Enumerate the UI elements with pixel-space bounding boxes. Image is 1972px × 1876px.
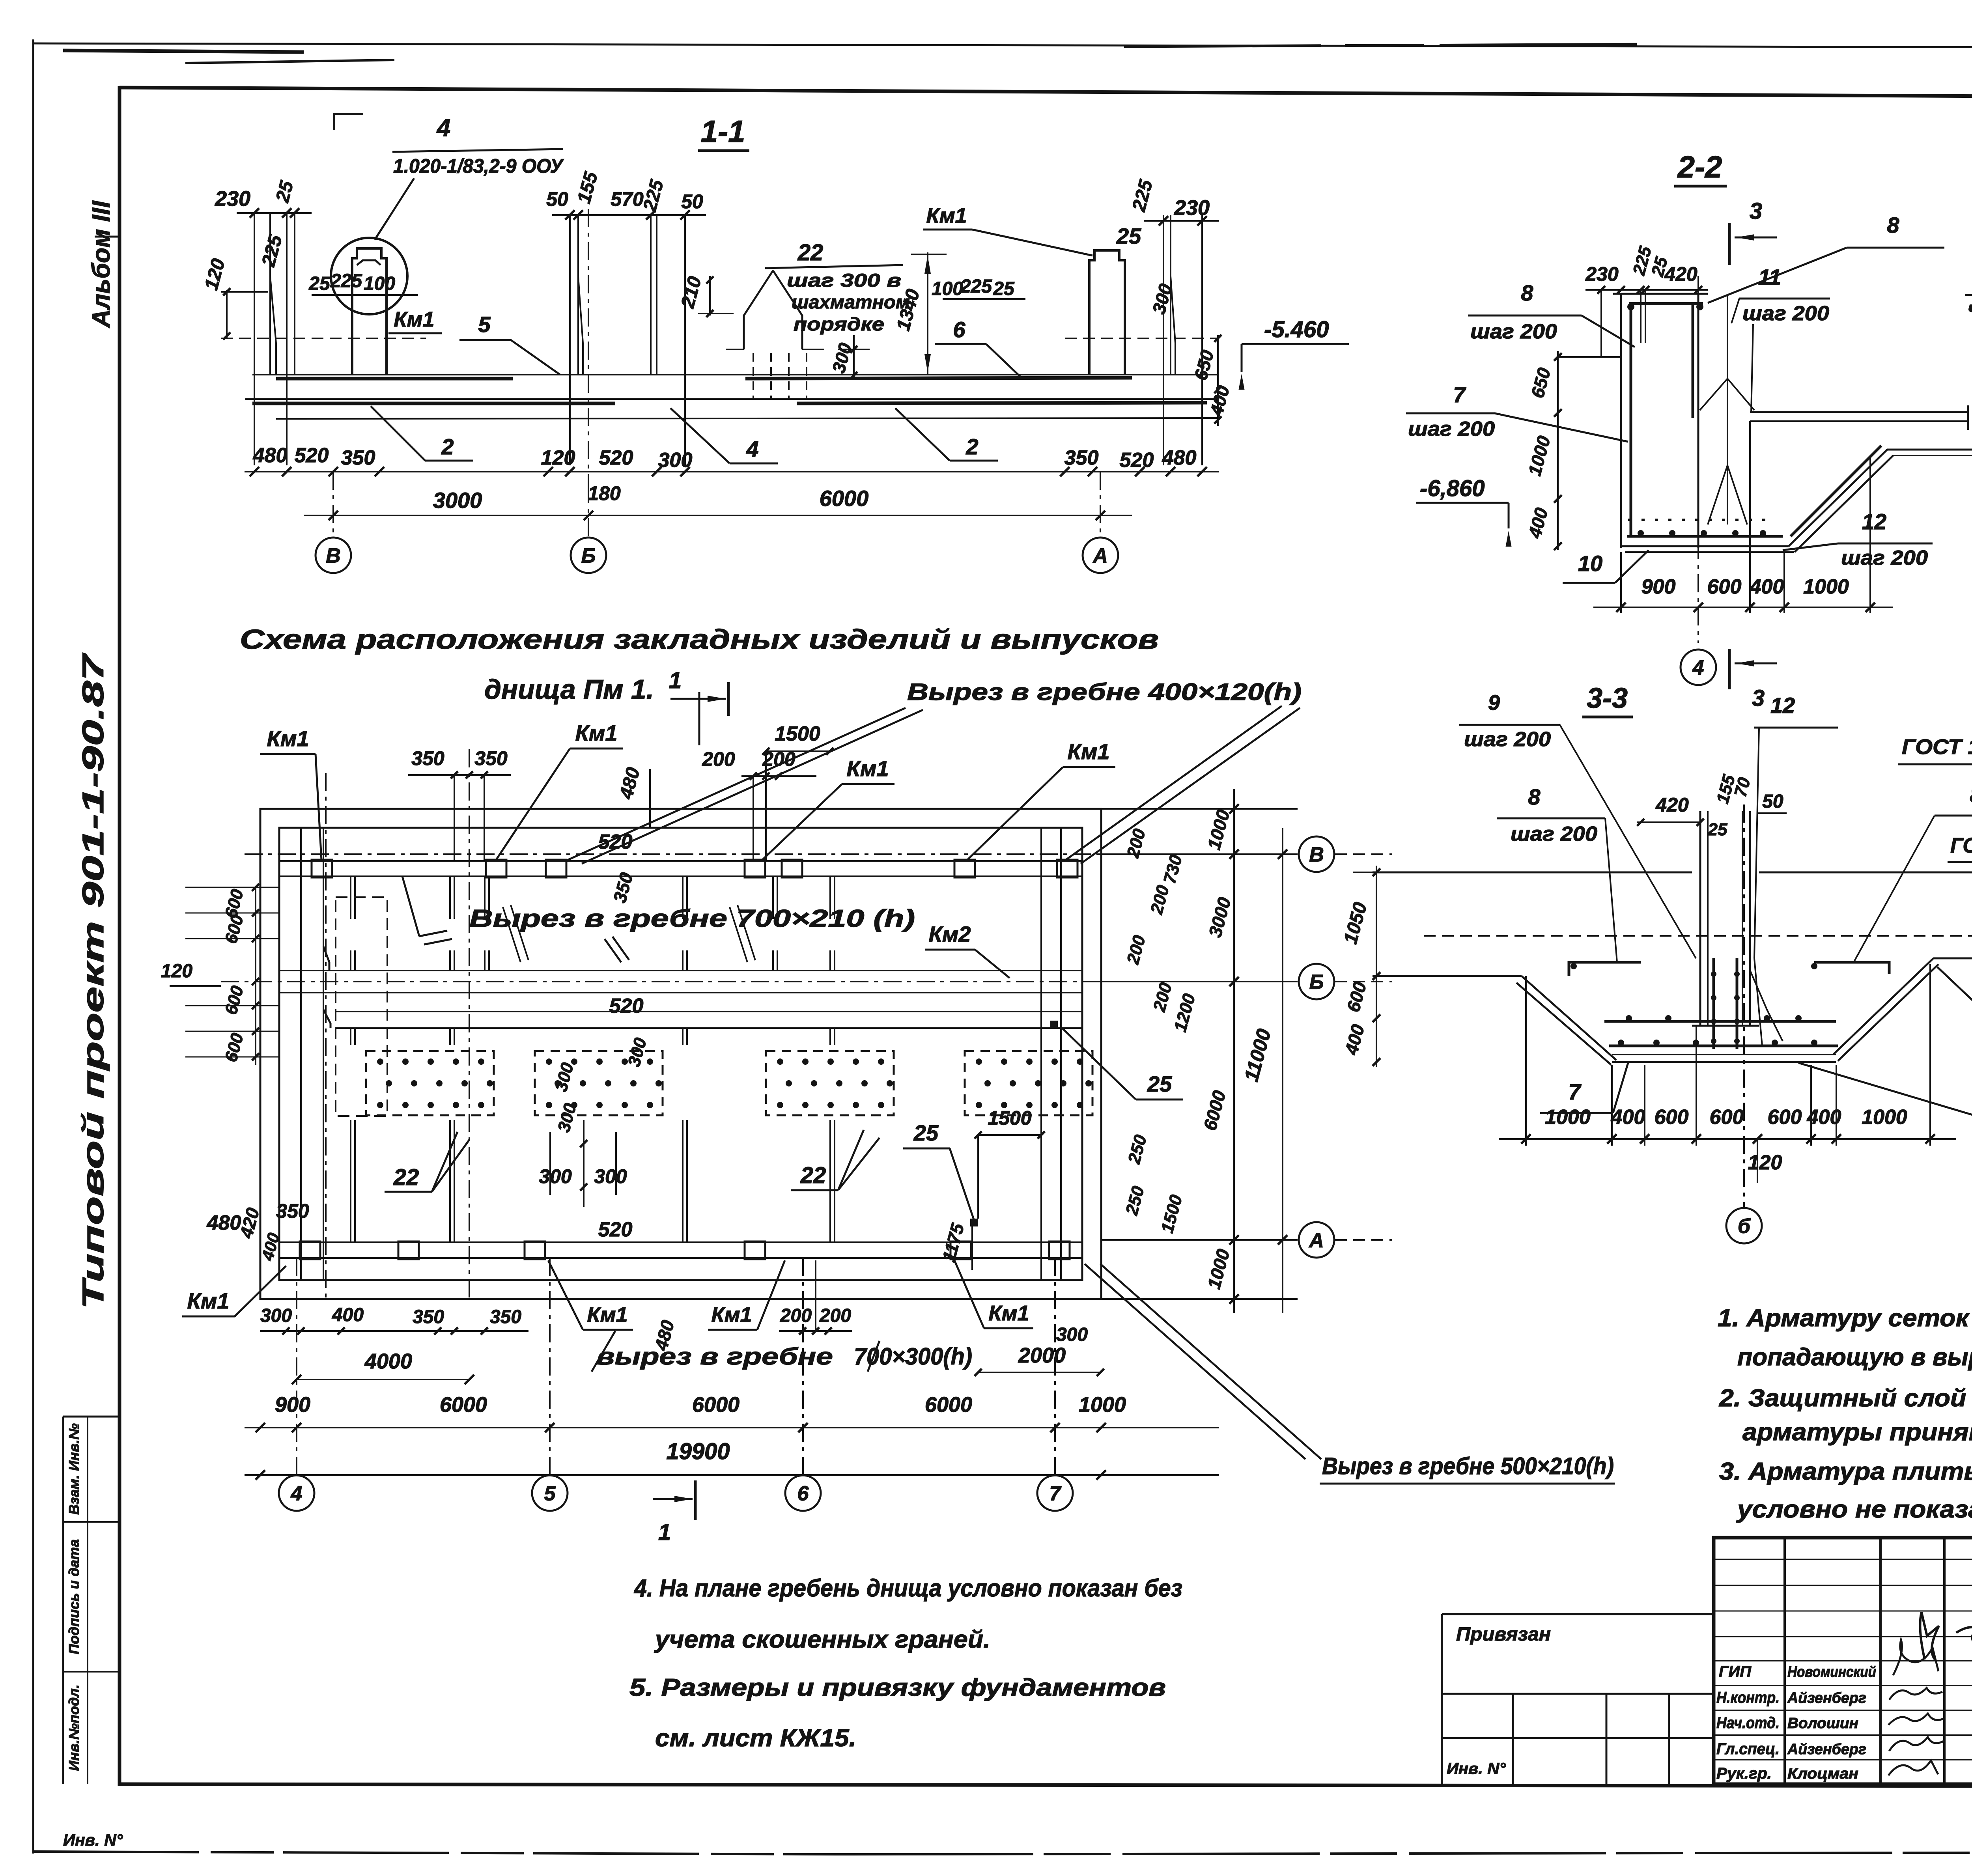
2-2 bottom rebar dotted bbox=[1628, 519, 1776, 521]
svg-text:Подпись и дата: Подпись и дата bbox=[66, 1539, 82, 1654]
svg-text:4: 4 bbox=[436, 114, 450, 142]
wall cluster at axis V verticals bbox=[254, 213, 255, 465]
svg-text:2. Защитный слой бетона для: 2. Защитный слой бетона для нижней рабоч… bbox=[1719, 1385, 1972, 1412]
svg-text:120: 120 bbox=[1748, 1151, 1782, 1174]
svg-text:6000: 6000 bbox=[440, 1393, 487, 1417]
plan bottom wall lines bbox=[279, 1241, 1082, 1243]
svg-text:Б: Б bbox=[581, 545, 596, 567]
svg-text:480: 480 bbox=[253, 444, 288, 467]
svg-text:200: 200 bbox=[819, 1305, 851, 1326]
sheet outer border left bbox=[32, 39, 34, 1854]
svg-text:через600,шаг200: через600,шаг200 bbox=[1967, 297, 1972, 320]
svg-text:7: 7 bbox=[1453, 382, 1466, 407]
svg-text:Км1: Км1 bbox=[587, 1303, 627, 1327]
svg-text:4: 4 bbox=[746, 437, 758, 461]
svg-text:4000: 4000 bbox=[364, 1350, 412, 1373]
right vertical dim chain bbox=[1217, 335, 1219, 426]
svg-text:11: 11 bbox=[1758, 265, 1781, 289]
svg-text:В: В bbox=[326, 545, 341, 567]
svg-text:Инв. N°: Инв. N° bbox=[1447, 1760, 1506, 1777]
svg-text:350: 350 bbox=[411, 747, 444, 769]
svg-text:22: 22 bbox=[800, 1163, 826, 1188]
svg-text:шаг 200: шаг 200 bbox=[1408, 418, 1495, 441]
svg-text:Б: Б bbox=[1309, 971, 1324, 994]
svg-text:10: 10 bbox=[1578, 551, 1602, 576]
svg-text:8: 8 bbox=[1970, 782, 1972, 807]
svg-text:6000: 6000 bbox=[692, 1393, 739, 1417]
plan dotted rects bbox=[366, 1051, 494, 1115]
svg-text:Вырез в гребне 500×210(h): Вырез в гребне 500×210(h) bbox=[1322, 1453, 1614, 1479]
svg-text:попадающую в вырез гребня,: попадающую в вырез гребня, обрезать по м… bbox=[1737, 1344, 1972, 1371]
svg-text:Гл.спец.: Гл.спец. bbox=[1716, 1740, 1780, 1758]
svg-text:225: 225 bbox=[960, 276, 992, 297]
svg-text:Км1: Км1 bbox=[575, 721, 618, 745]
2-2 pit fan lines bbox=[1727, 294, 1728, 414]
svg-text:Схема расположения закладных: Схема расположения закладных изделий и в… bbox=[240, 624, 1159, 655]
svg-text:50: 50 bbox=[1762, 791, 1783, 812]
svg-text:-5.460: -5.460 bbox=[1264, 317, 1329, 342]
svg-text:Нач.отд.: Нач.отд. bbox=[1716, 1714, 1780, 1732]
svg-text:шаг 200: шаг 200 bbox=[1841, 547, 1928, 569]
section 1-1 corner mark bbox=[334, 114, 363, 130]
svg-text:арматуры принят 35мм, для в: арматуры принят 35мм, для верхней -20мм. bbox=[1742, 1419, 1972, 1446]
svg-text:900: 900 bbox=[275, 1393, 310, 1417]
section cut 1 line bbox=[698, 692, 700, 745]
axis drop lines bbox=[332, 472, 334, 536]
section mark 3 top bbox=[1728, 223, 1731, 265]
section cut 1 bottom flag bbox=[694, 1480, 697, 1520]
svg-text:6000: 6000 bbox=[925, 1393, 972, 1417]
svg-text:22: 22 bbox=[797, 240, 824, 265]
svg-text:Км1: Км1 bbox=[926, 204, 967, 228]
2-2 haunch diagonal bbox=[1789, 450, 1887, 546]
svg-text:порядке: порядке bbox=[794, 314, 884, 334]
plan left wall inner lines bbox=[300, 828, 302, 1280]
main frame bbox=[118, 86, 121, 1786]
svg-text:350: 350 bbox=[1064, 446, 1099, 469]
3-3 hook bars top bbox=[1569, 962, 1641, 976]
svg-text:600: 600 bbox=[1710, 1106, 1744, 1129]
title block thin ruled rows top left bbox=[1714, 1559, 1972, 1560]
svg-text:2: 2 bbox=[965, 434, 978, 459]
svg-text:учета скошенных граней.: учета скошенных граней. bbox=[654, 1626, 990, 1653]
dim line bottom row 2 axis spacing bbox=[304, 515, 1132, 516]
svg-text:4: 4 bbox=[1692, 657, 1704, 679]
3-3 slab right of slope bbox=[1933, 958, 1972, 959]
svg-text:шаг 200: шаг 200 bbox=[1470, 320, 1557, 343]
plan right dim chain B 11000 bbox=[1282, 828, 1283, 1313]
svg-text:7: 7 bbox=[1049, 1482, 1062, 1505]
axis stub lines from circles bbox=[1335, 853, 1392, 855]
svg-text:300: 300 bbox=[1056, 1324, 1088, 1345]
svg-text:7: 7 bbox=[1568, 1079, 1582, 1104]
2-2 axis 4 dashdot vertical bbox=[1697, 276, 1699, 643]
axis circle B right bbox=[1299, 964, 1334, 999]
3-3 bottom rebar lines bbox=[1604, 1020, 1836, 1023]
svg-text:9: 9 bbox=[1488, 691, 1500, 715]
svg-text:шахматном: шахматном bbox=[792, 291, 910, 312]
3-3 wall top dims bbox=[1637, 821, 1700, 823]
axis circle A right bbox=[1299, 1222, 1334, 1258]
slab top thick chord bbox=[276, 377, 513, 381]
svg-text:Айзенберг: Айзенберг bbox=[1787, 1741, 1866, 1758]
svg-text:4. На плане гребень днища ус: 4. На плане гребень днища условно показа… bbox=[633, 1575, 1182, 1602]
svg-text:300: 300 bbox=[594, 1165, 627, 1187]
title block signature rows bbox=[1714, 1660, 1972, 1661]
plan bottom wall plates bbox=[300, 1241, 320, 1259]
svg-text:ГИП: ГИП bbox=[1719, 1663, 1752, 1680]
plan 25 marker square 2 bbox=[970, 1219, 978, 1226]
section cut 1 top flag bbox=[727, 682, 730, 716]
svg-text:50: 50 bbox=[681, 190, 703, 213]
svg-text:Км1: Км1 bbox=[394, 308, 434, 331]
svg-text:Рук.гр.: Рук.гр. bbox=[1716, 1765, 1772, 1782]
plan outer slab rectangle bbox=[260, 809, 1101, 1299]
scan streak top-middle bbox=[1124, 44, 1660, 47]
title block outer bbox=[1714, 1538, 1972, 1784]
detail bubble circle bbox=[331, 238, 407, 314]
svg-text:2000: 2000 bbox=[1018, 1344, 1066, 1367]
3-3 left dim chain bbox=[1376, 866, 1377, 1067]
svg-text:400: 400 bbox=[1807, 1106, 1841, 1129]
svg-text:19900: 19900 bbox=[666, 1439, 730, 1464]
svg-text:350: 350 bbox=[490, 1307, 521, 1327]
axis circle B bbox=[571, 538, 606, 573]
sheet outer border top bbox=[33, 43, 1972, 48]
svg-text:3000: 3000 bbox=[433, 488, 482, 513]
axis circle A bbox=[1083, 538, 1118, 573]
svg-text:В: В bbox=[1309, 844, 1324, 866]
plan top wall inner lines bbox=[279, 860, 1082, 862]
svg-text:200: 200 bbox=[780, 1305, 812, 1326]
embedded part right U profile bbox=[1089, 250, 1125, 375]
2-2 top dim line bbox=[1585, 289, 1708, 291]
svg-text:120: 120 bbox=[541, 446, 575, 469]
2-2 top slab right bbox=[1750, 411, 1968, 413]
svg-text:ГОСТ 14098-85 К3-Рр: ГОСТ 14098-85 К3-Рр bbox=[1902, 735, 1972, 759]
svg-text:400: 400 bbox=[332, 1305, 364, 1325]
axis circle 4 section bbox=[1681, 650, 1716, 685]
2-2 left top horizontal line bbox=[1559, 356, 1621, 358]
svg-text:12: 12 bbox=[1770, 693, 1795, 718]
svg-text:6000: 6000 bbox=[820, 486, 869, 511]
svg-text:225: 225 bbox=[330, 271, 362, 291]
svg-text:350: 350 bbox=[276, 1200, 309, 1222]
svg-text:Км1: Км1 bbox=[1068, 739, 1110, 764]
svg-text:1: 1 bbox=[658, 1519, 671, 1545]
svg-text:Н.контр.: Н.контр. bbox=[1716, 1689, 1780, 1706]
2-2 wall rebar verticals thick bbox=[1630, 304, 1632, 536]
svg-text:Км1: Км1 bbox=[847, 756, 889, 781]
3-3 fan small bbox=[1750, 970, 1783, 1041]
plan right horizontal extension lines bbox=[1101, 808, 1298, 810]
svg-text:1-1: 1-1 bbox=[701, 114, 745, 149]
svg-text:3: 3 bbox=[1750, 198, 1762, 224]
plan 25 marker square 1 bbox=[1050, 1021, 1058, 1029]
2-2 bottom dim line bbox=[1593, 607, 1893, 608]
svg-text:А: А bbox=[1308, 1229, 1324, 1252]
svg-text:2-2: 2-2 bbox=[1677, 149, 1722, 184]
privyazan box bbox=[1442, 1613, 1714, 1615]
svg-text:420: 420 bbox=[1664, 263, 1697, 285]
svg-text:ГОСТ 14098-85 К3-Рр: ГОСТ 14098-85 К3-Рр bbox=[1950, 834, 1972, 857]
svg-text:шаг 200: шаг 200 bbox=[1464, 728, 1551, 751]
svg-text:600: 600 bbox=[1768, 1106, 1802, 1129]
svg-text:350: 350 bbox=[341, 446, 375, 469]
svg-text:350: 350 bbox=[413, 1307, 444, 1327]
svg-text:25: 25 bbox=[913, 1120, 939, 1145]
svg-text:б: б bbox=[1738, 1215, 1751, 1238]
svg-text:Волошин: Волошин bbox=[1787, 1715, 1858, 1732]
svg-text:600: 600 bbox=[1707, 575, 1742, 598]
svg-text:Айзенберг: Айзенберг bbox=[1787, 1690, 1866, 1706]
signature big top bbox=[1920, 1612, 1972, 1659]
svg-text:8: 8 bbox=[1521, 280, 1533, 305]
plan crest strips verticals upper room bbox=[350, 876, 351, 919]
svg-text:Вырез в гребне 400×120(h): Вырез в гребне 400×120(h) bbox=[907, 679, 1302, 705]
svg-text:6: 6 bbox=[953, 317, 965, 342]
2-2 pit floor bbox=[1620, 545, 1789, 547]
plan dashed cut rectangle left bbox=[336, 897, 387, 1116]
wall cluster at axis B middle bbox=[569, 215, 571, 465]
svg-text:400: 400 bbox=[1750, 575, 1784, 598]
plan vyrez 700x210 leaders bbox=[419, 931, 447, 936]
plan top wall plates bbox=[312, 860, 332, 877]
2-2 left dim chain bbox=[1557, 351, 1559, 550]
plan crest strips verticals lower room bbox=[350, 1028, 351, 1045]
svg-text:520: 520 bbox=[295, 444, 329, 467]
svg-text:Взам. Инв.№: Взам. Инв.№ bbox=[66, 1423, 82, 1515]
svg-text:1500: 1500 bbox=[775, 722, 820, 745]
svg-text:100: 100 bbox=[364, 273, 395, 294]
svg-text:100: 100 bbox=[932, 278, 963, 299]
svg-text:1000: 1000 bbox=[1545, 1106, 1591, 1129]
plan corner hook top-left bbox=[323, 946, 329, 971]
3-3 wall pedestal bbox=[1692, 1025, 1759, 1027]
svg-text:1500: 1500 bbox=[988, 1107, 1031, 1129]
svg-text:А: А bbox=[1092, 545, 1108, 567]
svg-text:Типовой проект 901-1-90.87: Типовой проект 901-1-90.87 bbox=[77, 652, 110, 1309]
svg-text:12: 12 bbox=[1862, 509, 1886, 534]
svg-text:5: 5 bbox=[544, 1482, 556, 1505]
svg-text:4: 4 bbox=[291, 1482, 303, 1505]
axis circle V right bbox=[1299, 836, 1334, 872]
plan left wall axis dash-dot vertical bbox=[325, 773, 327, 1299]
svg-text:50: 50 bbox=[546, 188, 568, 210]
svg-text:3-3: 3-3 bbox=[1587, 683, 1628, 714]
svg-text:230: 230 bbox=[1174, 196, 1210, 220]
svg-text:см. лист КЖ15.: см. лист КЖ15. bbox=[655, 1725, 856, 1752]
plan crest axis dash-dot vertical bbox=[469, 749, 470, 1299]
svg-text:700×300(h): 700×300(h) bbox=[854, 1343, 972, 1370]
svg-text:шаг 200: шаг 200 bbox=[1511, 823, 1597, 846]
dim line bottom row 1 bbox=[245, 471, 1219, 472]
svg-text:300: 300 bbox=[260, 1305, 292, 1326]
svg-text:2: 2 bbox=[441, 434, 454, 459]
svg-text:8: 8 bbox=[1528, 784, 1541, 809]
2-2 wall top hooks bbox=[1613, 293, 1708, 295]
3-3 bottom dim line bbox=[1499, 1138, 1956, 1140]
plan axis B dash-dot centerline bbox=[221, 981, 1219, 982]
svg-text:Км1: Км1 bbox=[988, 1301, 1029, 1325]
svg-text:3. Арматура плиты днища на: 3. Арматура плиты днища на разрезах 2-2;… bbox=[1719, 1458, 1972, 1485]
svg-text:22: 22 bbox=[393, 1165, 419, 1190]
3-3 right slope bbox=[1833, 958, 1933, 1055]
svg-text:3: 3 bbox=[1752, 685, 1765, 711]
slab top line bbox=[252, 374, 1218, 375]
svg-text:Инв. N°: Инв. N° bbox=[63, 1831, 123, 1849]
2-2 wall verticals bbox=[1620, 294, 1622, 548]
plan bottom axis circles bbox=[296, 1258, 297, 1475]
svg-text:1000: 1000 bbox=[1862, 1106, 1907, 1129]
plan inner slab rectangle bbox=[279, 828, 1082, 1280]
svg-text:300: 300 bbox=[539, 1165, 572, 1187]
plan right dim chain A bbox=[1233, 789, 1235, 1313]
title block vertical dividers left part bbox=[1783, 1538, 1786, 1784]
svg-text:300: 300 bbox=[658, 449, 693, 472]
svg-text:520: 520 bbox=[599, 446, 633, 469]
svg-text:25: 25 bbox=[1708, 820, 1727, 839]
sheet outer border bottom (dashed scan) bbox=[33, 1852, 836, 1854]
svg-text:5: 5 bbox=[478, 312, 491, 337]
3-3 top slab surface bbox=[1373, 872, 1692, 874]
svg-text:420: 420 bbox=[1655, 794, 1689, 816]
2-2 slab right of haunch bbox=[1887, 449, 1972, 451]
svg-text:днища Пм 1.: днища Пм 1. bbox=[484, 674, 654, 705]
svg-text:520: 520 bbox=[598, 1218, 633, 1241]
svg-text:1.020-1/83,2-9 ООУ: 1.020-1/83,2-9 ООУ bbox=[393, 155, 564, 177]
3-3 left slope bbox=[1522, 976, 1616, 1060]
plan slanted break marks upper bbox=[503, 907, 521, 962]
svg-text:1. Арматуру сеток в месте: 1. Арматуру сеток в месте приямка и арма… bbox=[1718, 1305, 1972, 1332]
svg-text:Инв.№подл.: Инв.№подл. bbox=[66, 1684, 82, 1771]
svg-text:400: 400 bbox=[1611, 1106, 1645, 1129]
svg-text:вырез в гребне: вырез в гребне bbox=[596, 1343, 833, 1370]
long leader to vyrez 500x210 bbox=[1100, 1264, 1321, 1459]
svg-text:180: 180 bbox=[588, 482, 621, 504]
svg-text:Км1: Км1 bbox=[267, 726, 309, 751]
svg-text:200: 200 bbox=[702, 748, 735, 770]
3-3 slab bottom left bbox=[1373, 975, 1522, 977]
dim line top of wall V bbox=[237, 212, 312, 214]
svg-text:Альбом III: Альбом III bbox=[87, 200, 115, 328]
svg-text:1000: 1000 bbox=[1079, 1393, 1126, 1417]
plan left dim chain bbox=[185, 887, 280, 888]
svg-text:6: 6 bbox=[797, 1482, 809, 1505]
svg-text:8: 8 bbox=[1887, 213, 1899, 237]
3-3 internal wall verticals bbox=[1699, 811, 1701, 1026]
dashed centerline left bbox=[221, 338, 426, 339]
slab second thick chord bbox=[252, 402, 615, 405]
svg-text:480: 480 bbox=[1162, 446, 1197, 469]
svg-text:Клоцман: Клоцман bbox=[1787, 1766, 1858, 1782]
dim line top of wall B bbox=[552, 214, 706, 216]
dashed centerline right bbox=[1065, 338, 1219, 339]
svg-text:1: 1 bbox=[669, 668, 682, 693]
svg-text:Привязан: Привязан bbox=[1456, 1624, 1551, 1645]
plan middle wall band at axis B bbox=[279, 970, 1082, 971]
svg-text:520: 520 bbox=[609, 995, 644, 1017]
svg-text:Вырез в гребне 700×210 (h): Вырез в гребне 700×210 (h) bbox=[469, 905, 915, 932]
svg-text:900: 900 bbox=[1641, 575, 1676, 598]
svg-text:520: 520 bbox=[1120, 449, 1154, 472]
svg-text:25: 25 bbox=[308, 273, 331, 294]
svg-text:600: 600 bbox=[1655, 1106, 1689, 1129]
svg-text:570: 570 bbox=[611, 188, 644, 210]
svg-text:120: 120 bbox=[161, 961, 192, 982]
svg-text:Км1: Км1 bbox=[187, 1288, 230, 1313]
svg-text:5. Размеры и привязку фунда: 5. Размеры и привязку фундаментов bbox=[629, 1674, 1166, 1701]
right wall cluster verticals bbox=[1163, 215, 1164, 465]
svg-text:230: 230 bbox=[215, 187, 250, 211]
section mark 3 bottom bbox=[1728, 649, 1731, 689]
svg-text:шаг 200: шаг 200 bbox=[1742, 302, 1829, 325]
margin cells block bbox=[62, 1417, 64, 1784]
svg-text:1000: 1000 bbox=[1803, 575, 1849, 598]
axis circle V bbox=[316, 538, 351, 573]
svg-text:230: 230 bbox=[1585, 263, 1619, 285]
svg-text:шаг 300 в: шаг 300 в bbox=[787, 270, 901, 291]
marker 22 dashed drops bbox=[753, 353, 754, 399]
svg-text:условно не показана.: условно не показана. bbox=[1736, 1496, 1972, 1523]
3-3 wall rebar verticals bbox=[1712, 958, 1715, 1049]
axis circle b section 3-3 bbox=[1743, 805, 1745, 1208]
svg-text:25: 25 bbox=[1116, 224, 1141, 248]
svg-text:-6,860: -6,860 bbox=[1420, 476, 1485, 501]
svg-text:Км1: Км1 bbox=[711, 1303, 752, 1327]
scan streak top-left bbox=[63, 50, 304, 52]
plan right wall inner lines bbox=[1040, 828, 1042, 1280]
plan axis V dash-dot centerline bbox=[245, 853, 1219, 855]
svg-text:480: 480 bbox=[207, 1211, 241, 1234]
slab third line bbox=[276, 418, 1217, 419]
dim 300 at marker 22 bbox=[838, 349, 870, 350]
2-2 extension verticals from dim bbox=[1600, 290, 1602, 357]
svg-text:350: 350 bbox=[474, 747, 508, 769]
svg-text:25: 25 bbox=[1147, 1071, 1172, 1096]
svg-text:Км2: Км2 bbox=[929, 922, 971, 946]
slab second line bbox=[245, 398, 1218, 400]
svg-text:25: 25 bbox=[993, 278, 1015, 299]
3-3 dashed mid line bbox=[1424, 935, 1972, 937]
embedded part inside bubble bbox=[352, 248, 387, 375]
signatures squiggles bbox=[1893, 1640, 1938, 1675]
3-3 pit floor bbox=[1612, 1054, 1836, 1055]
svg-text:Новоминский: Новоминский bbox=[1787, 1664, 1876, 1680]
